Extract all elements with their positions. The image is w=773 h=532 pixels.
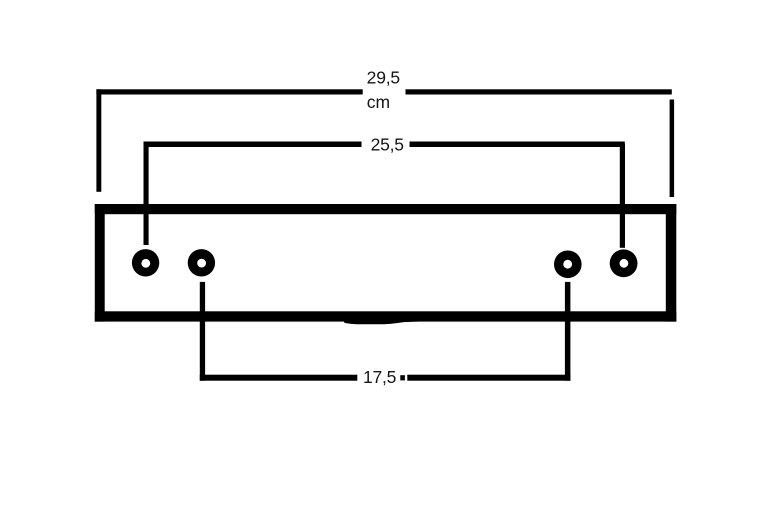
label cm [367,92,390,112]
hole H3 [554,250,582,278]
dimension 17,5: horizontal line right segment [407,375,570,381]
label 25,5 [371,135,404,155]
dimension 25,5: horizontal line right segment [410,142,625,148]
dimension 25,5: horizontal line left segment [144,142,362,148]
svg-text:17,5: 17,5 [363,367,396,387]
dimension 29,5 cm: horizontal line left segment [96,89,362,94]
label 29,5 [367,67,400,87]
dimension 17,5: horizontal line left segment [200,375,357,381]
hand-drawn overtrace bump on bottom edge [344,312,437,324]
dimension 17,5: small dash after label [400,375,405,380]
bracket body outline (rectangle) [95,204,677,322]
dimension 17,5: right extension line (from hole H3) [565,282,571,381]
hole H1 [132,249,159,276]
dimension 29,5 cm: left extension line [96,89,101,192]
label 17,5 [363,367,396,387]
dimension 25,5: right extension line (to hole H4) [620,144,625,248]
svg-text:29,5: 29,5 [367,67,400,87]
dimension 17,5: left extension line (from hole H2) [200,282,205,381]
hole H2 [188,249,215,276]
dimension 29,5 cm: horizontal line right segment [406,89,672,94]
svg-text:25,5: 25,5 [371,135,404,155]
svg-text:cm: cm [367,92,390,112]
dimension 25,5: left extension line (to hole H1) [144,142,149,246]
hole H4 [610,249,638,277]
dimension 29,5 cm: right extension line [670,100,675,198]
